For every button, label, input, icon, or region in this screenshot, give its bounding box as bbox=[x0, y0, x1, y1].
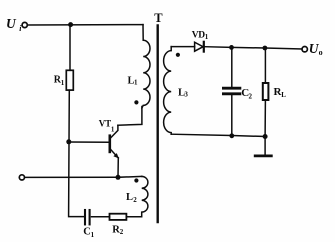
wire: emitter down to node C bbox=[117, 158, 119, 177]
svg-text:3: 3 bbox=[184, 91, 188, 99]
label L1 bbox=[128, 75, 139, 86]
label R1 bbox=[54, 75, 65, 87]
svg-text:1: 1 bbox=[111, 125, 115, 133]
svg-text:2: 2 bbox=[249, 92, 253, 100]
phase dot L3 bbox=[176, 53, 180, 57]
node G (ground junction) bbox=[263, 134, 268, 139]
label VD1 bbox=[192, 30, 209, 41]
resistor R1 bbox=[66, 70, 73, 90]
label Ui bbox=[6, 16, 22, 33]
label C1 bbox=[83, 227, 94, 239]
wire: bottom-left terminal to node C bbox=[25, 176, 118, 178]
node F (C2 bottom junction) bbox=[229, 133, 234, 138]
svg-text:1: 1 bbox=[61, 79, 65, 87]
svg-text:T: T bbox=[154, 11, 163, 25]
wire: R1 down through node B to bottom-left corner bbox=[69, 90, 84, 217]
resistor R2 bbox=[110, 214, 127, 220]
output terminal (circle) bbox=[302, 47, 307, 52]
svg-text:o: o bbox=[319, 48, 323, 57]
svg-text:1: 1 bbox=[134, 79, 138, 87]
wire: node A down to R1 bbox=[69, 25, 71, 71]
svg-text:L: L bbox=[126, 192, 133, 203]
svg-text:L: L bbox=[281, 91, 286, 99]
wire: collector to L1 bottom bbox=[118, 107, 142, 126]
phase dot L2 bbox=[134, 178, 138, 182]
capacitor C2 bbox=[223, 88, 240, 94]
node A (junction top) bbox=[68, 22, 73, 27]
svg-text:1: 1 bbox=[91, 231, 95, 239]
input terminal (circle) bbox=[22, 22, 27, 27]
wire: node C to L2 top bbox=[118, 175, 142, 178]
inductor L3 (secondary winding, 4 turns) bbox=[164, 47, 172, 135]
label VT1 bbox=[99, 118, 115, 133]
svg-text:VT: VT bbox=[99, 118, 112, 128]
inductor L1 (primary winding, 4 turns) bbox=[142, 25, 150, 108]
label L3 bbox=[178, 87, 188, 98]
label RL bbox=[274, 86, 287, 99]
phase dot L1 bbox=[134, 100, 138, 104]
bottom-left terminal (circle) bbox=[19, 175, 24, 180]
svg-text:U: U bbox=[6, 16, 17, 31]
node C (emitter junction) bbox=[116, 175, 121, 180]
label L2 bbox=[126, 192, 137, 204]
wire: node E down to RL bbox=[264, 48, 266, 83]
ground bbox=[255, 137, 271, 156]
diode VD1 bbox=[195, 42, 204, 52]
transformer core bbox=[156, 26, 158, 223]
wire: L3 bottom to node G bbox=[171, 134, 265, 136]
wire: input terminal to node A and on to L1 top bbox=[28, 24, 143, 26]
wire: L3 top to diode anode bbox=[171, 46, 194, 48]
capacitor C1 bbox=[85, 210, 90, 224]
svg-text:1: 1 bbox=[205, 33, 209, 41]
node E (RL top junction) bbox=[263, 46, 268, 51]
wire: C2 down to node F bbox=[231, 95, 233, 136]
transistor VT1 bbox=[110, 125, 119, 158]
svg-text:2: 2 bbox=[120, 228, 124, 236]
wire: node B to base of VT1 bbox=[69, 141, 109, 143]
label Uo bbox=[309, 41, 323, 57]
node B (base drive junction) bbox=[66, 139, 71, 144]
label C2 bbox=[241, 87, 252, 100]
svg-text:2: 2 bbox=[133, 196, 137, 204]
resistor RL bbox=[263, 83, 269, 100]
wire: R2 to C1 bbox=[92, 216, 110, 218]
wire: node D down to C2 bbox=[231, 47, 233, 86]
wire: diode cathode to output terminal bbox=[205, 47, 302, 49]
wire: RL down to node G bbox=[264, 100, 266, 137]
svg-text:VD: VD bbox=[192, 30, 205, 40]
inductor L2 (feedback winding, 3 turns) bbox=[126, 176, 147, 216]
node D (C2 top junction) bbox=[229, 45, 234, 50]
label R2 bbox=[112, 224, 124, 236]
